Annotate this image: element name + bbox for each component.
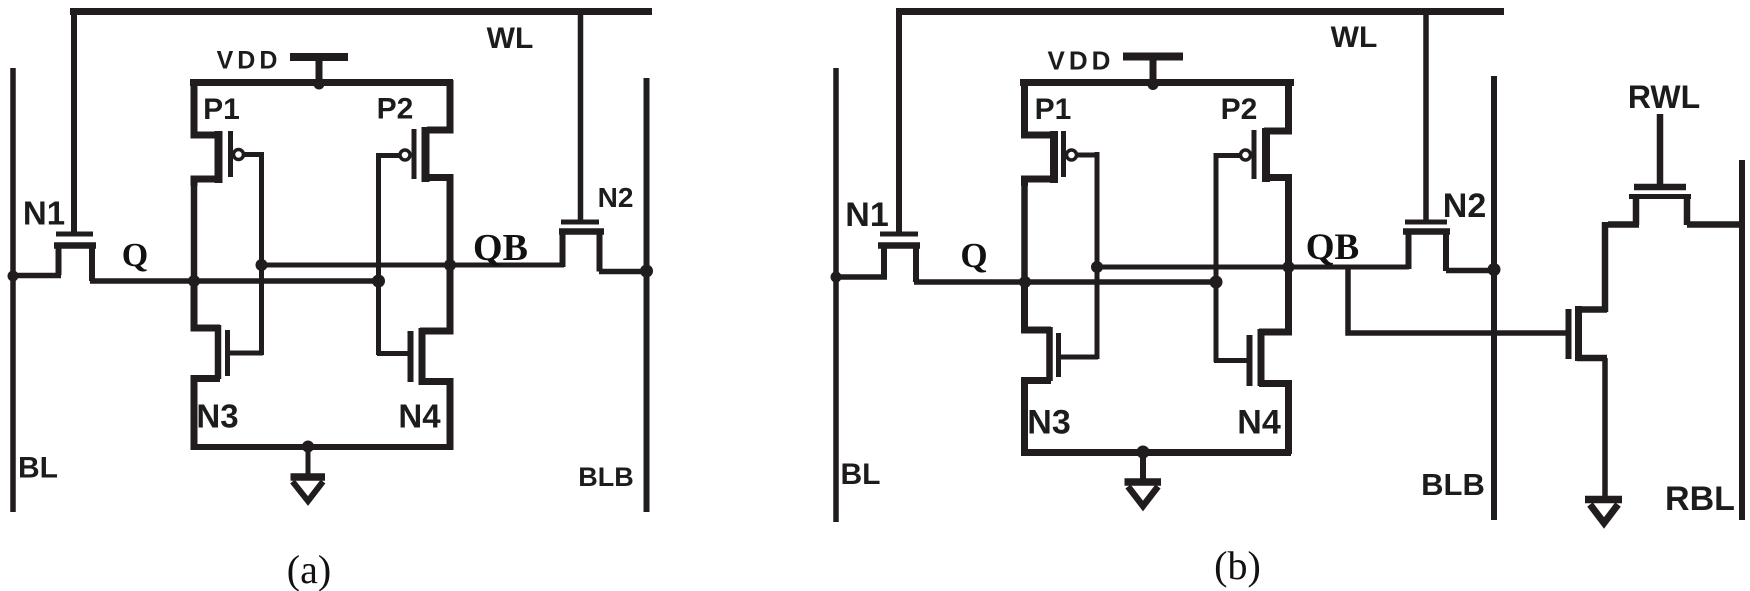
transistor N3 (a) xyxy=(194,278,263,450)
svg-text:N3: N3 xyxy=(1027,404,1070,442)
svg-text:N1: N1 xyxy=(845,196,888,234)
ground rail (b) xyxy=(1021,449,1291,456)
wire P2 N4 gate column (b) xyxy=(1214,153,1219,362)
wire RWL to read gate (b) xyxy=(1657,114,1664,188)
bitline RBL (b) xyxy=(1739,160,1745,520)
wire N2 to BLB (a) xyxy=(599,269,647,275)
node BLB junction (a) xyxy=(640,265,653,278)
svg-text:RBL: RBL xyxy=(1665,480,1735,518)
svg-text:(b): (b) xyxy=(1214,543,1261,588)
transistor P1 (a) xyxy=(194,80,244,186)
node QB at P1 gate column (b) xyxy=(1091,261,1103,273)
node QB at inverter trunk (b) xyxy=(1283,261,1295,273)
svg-text:WL: WL xyxy=(1331,21,1378,54)
power symbol VDD (b) xyxy=(1123,56,1183,84)
node Q at inverter trunk (a) xyxy=(188,275,200,287)
wire P1 gate lead (a) xyxy=(243,152,263,157)
svg-text:BL: BL xyxy=(841,458,881,491)
node BLB junction (b) xyxy=(1488,263,1501,276)
wire node Q (a) xyxy=(90,278,378,284)
wire read stack middle (b) xyxy=(1602,222,1609,312)
wire BL to N1 source (b) xyxy=(834,274,887,280)
node QB at P1 gate column (a) xyxy=(256,259,268,271)
transistor P2 (b) xyxy=(1241,80,1289,184)
wire P2 gate lead (b) xyxy=(1215,153,1242,158)
wire WL to N1 gate (b) xyxy=(896,9,902,232)
wire WL word line (a) xyxy=(70,8,652,15)
wire node QB (b) xyxy=(1097,265,1409,270)
svg-text:QB: QB xyxy=(1306,227,1359,268)
wire P1 drain to node Q (a) xyxy=(191,183,198,284)
wire P1 N3 gate column (a) xyxy=(259,152,264,355)
node ground rail (b) xyxy=(1137,446,1150,459)
svg-text:P2: P2 xyxy=(1221,93,1258,126)
svg-text:N4: N4 xyxy=(1237,404,1281,442)
power rail VDD (b) xyxy=(1020,79,1294,86)
transistor N3 (b) xyxy=(1025,279,1099,454)
svg-text:VDD: VDD xyxy=(1048,46,1115,76)
svg-text:RWL: RWL xyxy=(1628,79,1700,115)
node Q at inverter trunk (b) xyxy=(1019,276,1031,288)
svg-text:WL: WL xyxy=(487,22,534,55)
svg-text:N4: N4 xyxy=(398,398,441,435)
wire P1 N3 gate column (b) xyxy=(1095,152,1100,359)
wire BL to N1 source (a) xyxy=(11,273,61,279)
bitline BL (b) xyxy=(833,68,839,522)
svg-text:P1: P1 xyxy=(1035,93,1072,126)
wire WL to N2 gate (b) xyxy=(1423,9,1429,222)
svg-text:Q: Q xyxy=(960,236,987,275)
wire QB to read gate (b) xyxy=(1348,266,1566,333)
svg-text:N2: N2 xyxy=(598,182,634,213)
wire N2 to BLB (b) xyxy=(1446,268,1495,274)
svg-text:VDD: VDD xyxy=(217,47,282,75)
ground (b) xyxy=(1125,452,1162,506)
ground (a) xyxy=(291,447,326,501)
node VDD stem on rail (b) xyxy=(1148,79,1159,90)
svg-text:P1: P1 xyxy=(203,93,240,126)
svg-text:BL: BL xyxy=(18,452,58,485)
wire read source to ground (b) xyxy=(1602,358,1608,496)
node Q at P2 N4 gate column (b) xyxy=(1210,276,1223,289)
svg-text:N1: N1 xyxy=(23,195,65,232)
wire P2 drain to node QB (b) xyxy=(1285,181,1292,270)
wire WL word line (b) xyxy=(896,8,1504,15)
node ground rail (a) xyxy=(302,441,314,453)
svg-text:N3: N3 xyxy=(196,398,238,435)
transistor RA read access (b) xyxy=(1608,187,1742,225)
transistor RD read driver (b) xyxy=(1569,306,1608,361)
transistor N4 (b) xyxy=(1214,264,1289,454)
svg-text:Q: Q xyxy=(122,237,148,274)
wire node Q (b) xyxy=(914,279,1216,285)
bitline BLB (a) xyxy=(644,78,650,512)
wire P1 drain to node Q (b) xyxy=(1021,183,1028,285)
power rail VDD (a) xyxy=(190,79,453,86)
svg-text:QB: QB xyxy=(473,227,528,269)
transistor N4 (a) xyxy=(377,262,450,450)
ground rail (a) xyxy=(191,444,451,450)
wire P2 N4 gate column (a) xyxy=(376,153,381,355)
node Q at P2 N4 gate column (a) xyxy=(372,275,385,288)
wire WL to N2 gate (a) xyxy=(578,9,584,222)
wire P2 gate lead (a) xyxy=(381,153,401,158)
transistor P1 (b) xyxy=(1025,80,1077,186)
ground read port (b) xyxy=(1585,500,1622,524)
wire P1 gate lead (b) xyxy=(1076,153,1098,158)
bitline BL (a) xyxy=(10,68,16,512)
transistor N2 (a) xyxy=(559,222,604,272)
wire P2 drain to node QB (a) xyxy=(447,181,454,268)
svg-text:BLB: BLB xyxy=(1421,467,1485,502)
transistor P2 (a) xyxy=(400,80,450,184)
svg-text:P2: P2 xyxy=(377,93,414,126)
svg-text:(a): (a) xyxy=(287,547,331,591)
bitline BLB (b) xyxy=(1491,76,1497,520)
svg-text:BLB: BLB xyxy=(578,462,634,492)
power symbol VDD (a) xyxy=(290,57,348,84)
node BL junction (b) xyxy=(831,272,842,283)
node VDD stem on rail (a) xyxy=(314,79,325,90)
node BL junction (a) xyxy=(8,271,19,282)
transistor N1 (a) xyxy=(54,234,96,281)
node QB at inverter trunk (a) xyxy=(444,259,456,271)
transistor N2 (b) xyxy=(1403,222,1450,271)
wire WL to N1 gate (a) xyxy=(71,9,77,232)
transistor N1 (b) xyxy=(878,234,920,282)
svg-text:N2: N2 xyxy=(1443,187,1486,225)
wire node QB (a) xyxy=(262,263,565,268)
